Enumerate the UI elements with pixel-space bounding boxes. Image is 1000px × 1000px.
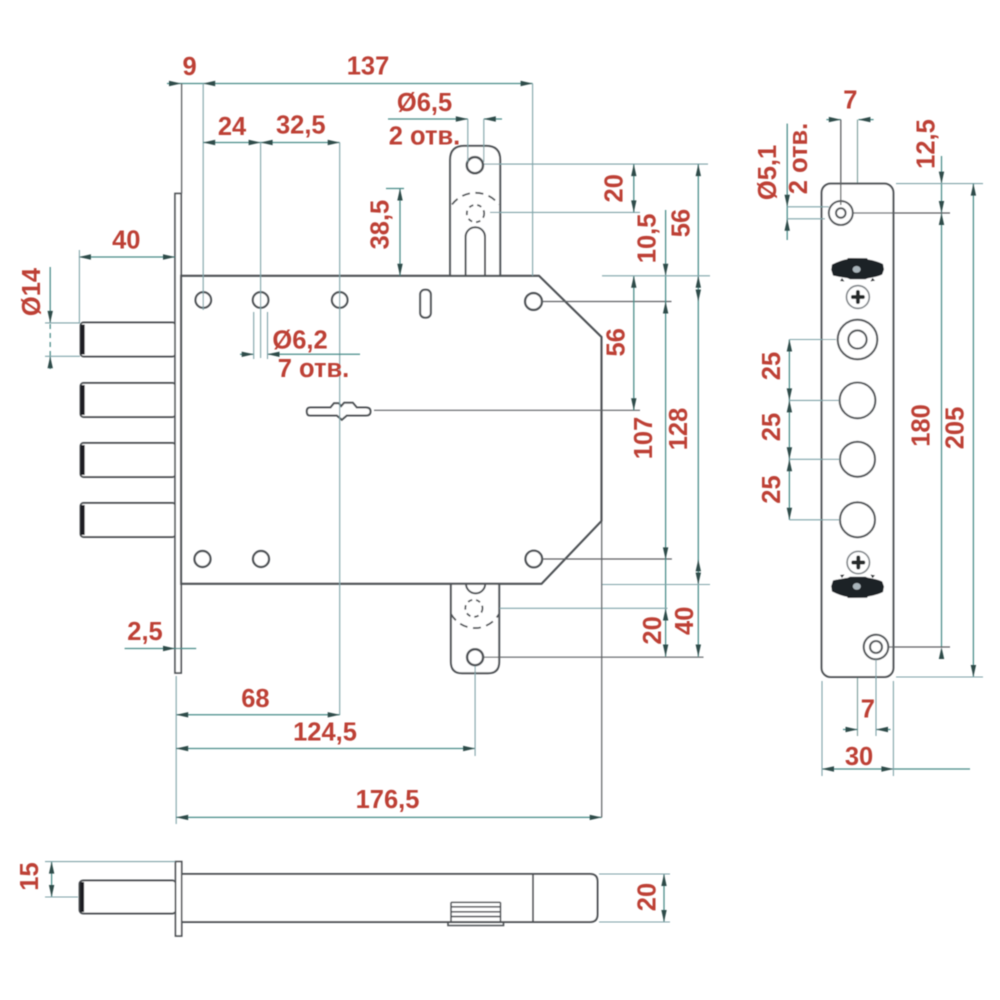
svg-text:128: 128 <box>665 408 693 451</box>
svg-text:176,5: 176,5 <box>356 786 420 814</box>
svg-text:20: 20 <box>639 616 667 644</box>
svg-text:56: 56 <box>668 209 696 237</box>
svg-text:124,5: 124,5 <box>293 719 357 747</box>
svg-text:20: 20 <box>601 174 629 202</box>
svg-text:180: 180 <box>907 404 935 447</box>
svg-text:12,5: 12,5 <box>912 119 940 169</box>
svg-text:40: 40 <box>671 607 699 635</box>
svg-text:107: 107 <box>630 417 658 460</box>
svg-text:25: 25 <box>758 475 786 503</box>
svg-text:20: 20 <box>634 883 662 911</box>
svg-text:Ø6,2: Ø6,2 <box>272 327 327 355</box>
svg-text:Ø14: Ø14 <box>18 267 46 316</box>
svg-text:25: 25 <box>758 352 786 380</box>
svg-text:56: 56 <box>602 328 630 356</box>
svg-text:7: 7 <box>861 696 875 724</box>
svg-text:9: 9 <box>183 53 197 81</box>
svg-text:Ø6,5: Ø6,5 <box>397 89 452 117</box>
svg-text:10,5: 10,5 <box>634 214 662 264</box>
svg-text:40: 40 <box>112 227 140 255</box>
svg-text:2,5: 2,5 <box>127 618 162 646</box>
svg-text:24: 24 <box>218 113 247 141</box>
svg-text:2 отв.: 2 отв. <box>389 123 460 151</box>
svg-text:68: 68 <box>241 685 269 713</box>
svg-text:7: 7 <box>843 86 857 114</box>
svg-text:205: 205 <box>942 407 970 450</box>
svg-text:25: 25 <box>758 413 786 441</box>
svg-text:Ø5,1: Ø5,1 <box>754 145 782 200</box>
svg-text:2 отв.: 2 отв. <box>785 123 813 194</box>
svg-text:7 отв.: 7 отв. <box>278 355 349 383</box>
svg-text:38,5: 38,5 <box>367 200 395 250</box>
svg-text:137: 137 <box>347 53 390 81</box>
svg-text:30: 30 <box>845 743 873 771</box>
svg-text:32,5: 32,5 <box>276 112 326 140</box>
svg-text:15: 15 <box>16 862 44 890</box>
